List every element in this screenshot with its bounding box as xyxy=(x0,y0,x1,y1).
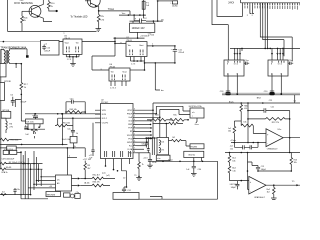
svg-text:5: 5 xyxy=(134,141,135,143)
node pin10 end xyxy=(146,141,148,143)
node feed dots xyxy=(114,41,116,43)
node bottom pins xyxy=(113,169,115,171)
svg-text:7k: 7k xyxy=(142,164,144,166)
wire ladder v8 xyxy=(37,164,39,182)
svg-text:(a2): (a2) xyxy=(106,175,110,177)
wire vcc top bus xyxy=(153,102,300,104)
label right pin numbers xyxy=(134,109,135,154)
wire fb left rail xyxy=(247,103,249,143)
rectifier module box xyxy=(41,41,60,56)
node R17 low xyxy=(21,94,23,96)
header J3 box xyxy=(156,155,170,160)
wire R1a right xyxy=(70,118,73,130)
wire R10 row xyxy=(9,139,22,141)
svg-text:Vout: Vout xyxy=(139,44,144,47)
node plus2 xyxy=(241,180,243,182)
wire row2 xyxy=(80,185,92,187)
svg-text:C30: C30 xyxy=(198,169,201,171)
svg-text:4: 4 xyxy=(134,112,135,114)
resistor R5 small xyxy=(31,129,37,131)
svg-text:C1k: C1k xyxy=(232,170,235,172)
wire rail down b xyxy=(159,117,161,137)
svg-text:R8: R8 xyxy=(87,165,89,167)
wire ladder v4 xyxy=(27,158,29,199)
svg-text:8: 8 xyxy=(134,126,135,128)
capacitor C22 xyxy=(235,181,239,190)
wire pin2 bus xyxy=(137,106,191,113)
pin name marks xyxy=(245,6,298,10)
svg-text:C21: C21 xyxy=(271,107,274,109)
svg-text:+C17 1uF: +C17 1uF xyxy=(83,159,92,161)
svg-text:C10: C10 xyxy=(151,34,154,36)
svg-text:-: - xyxy=(267,142,268,145)
op-amp U1a xyxy=(266,129,283,147)
node R8 foot xyxy=(84,178,86,180)
header box J4 xyxy=(75,194,80,199)
wire osc tap a xyxy=(65,112,67,114)
capacitor C14 xyxy=(172,1,177,4)
wire drops to U8 xyxy=(235,48,242,60)
arrow osc b xyxy=(78,184,80,186)
svg-text:78L05: 78L05 xyxy=(64,38,71,40)
node vcc rail dots xyxy=(247,102,249,104)
wire osc tap b xyxy=(84,112,86,114)
svg-text:Vout: Vout xyxy=(65,42,70,45)
wire ladder v9 xyxy=(40,169,42,186)
svg-text:C13: C13 xyxy=(261,166,264,168)
wire pin5 row xyxy=(137,123,151,125)
pins below U6 xyxy=(111,81,126,86)
svg-text:10k: 10k xyxy=(228,131,231,133)
wire to plus input2 xyxy=(230,180,249,182)
wire ladder v6 xyxy=(33,151,35,190)
resistor Ba2 xyxy=(228,166,231,181)
wire TXout xyxy=(99,10,130,12)
wire Q1 emitter xyxy=(39,16,52,21)
pins U2 left xyxy=(95,110,101,123)
node under U5 xyxy=(69,56,71,58)
relay K1 box xyxy=(3,150,9,154)
node rail dots xyxy=(128,14,130,16)
svg-text:8: 8 xyxy=(227,63,228,65)
wire under U1 xyxy=(131,60,145,62)
svg-text:DVO SENSING: DVO SENSING xyxy=(14,1,33,5)
arrow pin4 xyxy=(151,120,153,122)
wire row1 xyxy=(80,178,92,180)
jumper box small xyxy=(70,136,77,143)
node jog xyxy=(126,186,128,188)
wire left rail xyxy=(7,0,9,31)
svg-text:GPEP: GPEP xyxy=(127,142,133,144)
svg-text:+C7: +C7 xyxy=(89,155,93,157)
label right pin names xyxy=(127,110,133,155)
node ladder joints xyxy=(20,152,22,154)
wire conn long 4 xyxy=(267,3,269,49)
svg-text:FL1A: FL1A xyxy=(128,148,133,151)
wire ladder v5 xyxy=(30,164,32,195)
svg-text:10uFp: 10uFp xyxy=(172,6,179,8)
svg-text:MROKEB: MROKEB xyxy=(47,194,56,196)
svg-text:C20: C20 xyxy=(264,91,267,93)
svg-text:1: 1 xyxy=(134,133,135,135)
capacitor C7 left xyxy=(91,123,94,156)
ground U5 xyxy=(70,64,76,67)
wire conn left feed xyxy=(212,0,228,60)
node top feed xyxy=(157,0,159,2)
relay U10 box xyxy=(157,138,169,155)
wire pin11 row xyxy=(137,145,148,147)
arrow marks U8 pins xyxy=(234,53,241,54)
wire bus 144 xyxy=(0,143,67,145)
wire box bottom drop xyxy=(137,32,139,38)
resistor Ba1 xyxy=(228,153,231,167)
wire Q2 emitter xyxy=(97,6,99,11)
capacitor C20 xyxy=(269,92,274,95)
capacitor C15 xyxy=(148,153,152,165)
wire pin4 row xyxy=(137,120,151,122)
resistor RA3 xyxy=(1,194,6,196)
node fb2 xyxy=(257,170,259,172)
wire pin10 row xyxy=(137,141,148,143)
wire R24 link xyxy=(167,119,170,121)
svg-text:10k: 10k xyxy=(294,162,297,164)
node c row xyxy=(257,142,259,144)
svg-text:-: - xyxy=(250,190,251,193)
resistor R22 xyxy=(248,118,290,121)
wire U1a out xyxy=(283,137,300,139)
wire right column xyxy=(144,61,146,70)
capacitor C13 xyxy=(256,166,260,172)
svg-text:SMP: SMP xyxy=(128,124,133,126)
svg-text:C23: C23 xyxy=(269,100,272,102)
svg-text:Ba2: Ba2 xyxy=(232,168,235,170)
wire U9 pin2 drop xyxy=(271,76,273,92)
ground Q2 xyxy=(96,29,102,32)
capacitor C11 xyxy=(173,46,177,63)
pin marks U6 xyxy=(112,75,125,81)
svg-text:C2aa: C2aa xyxy=(289,60,293,62)
resistor R1a xyxy=(56,124,69,127)
wire TXout drop xyxy=(129,11,131,15)
wire transformer bottom xyxy=(4,62,21,65)
connector pins xyxy=(245,3,300,14)
node R43 taps xyxy=(65,111,67,113)
arrow marks U9 pins xyxy=(271,53,284,54)
ground C30 xyxy=(191,174,197,177)
capacitor C1b xyxy=(71,130,75,136)
wire cap to fuse xyxy=(144,15,146,21)
svg-text:Ja2: Ja2 xyxy=(230,145,233,147)
svg-text:1k2: 1k2 xyxy=(267,192,270,194)
capacitor C4 xyxy=(24,125,28,128)
wire minus rail stub xyxy=(233,143,235,148)
eeprom box MROKEB xyxy=(46,192,61,197)
wire RA1 row xyxy=(6,163,43,165)
wire bottom of Q1 block xyxy=(8,30,97,32)
svg-text:1k2: 1k2 xyxy=(2,192,5,194)
node out2 xyxy=(273,184,275,186)
wire pin12 row xyxy=(137,148,145,150)
svg-text:CM 100000uF: CM 100000uF xyxy=(2,158,15,160)
wire fb2 row xyxy=(258,170,291,172)
resistor R9b xyxy=(241,121,253,127)
wire pin8 row xyxy=(137,134,151,136)
svg-text:78L05: 78L05 xyxy=(109,66,116,68)
capacitor C31 xyxy=(122,189,126,192)
regulator U6 box xyxy=(109,68,130,81)
node fb rail xyxy=(247,110,249,112)
wire conn long 2 xyxy=(263,3,284,56)
wire return rail xyxy=(145,62,175,64)
wire box top stub xyxy=(133,21,153,23)
svg-text:R2L: R2L xyxy=(173,114,176,116)
inductor L1b xyxy=(159,147,160,153)
node mid rail xyxy=(137,37,139,39)
pins below U1 xyxy=(131,57,145,62)
relay K2 box xyxy=(10,150,17,154)
wire U8 pin3 drop xyxy=(236,76,238,94)
pins below DK box xyxy=(28,124,40,129)
svg-text:Trout: Trout xyxy=(168,158,173,161)
svg-text:a bc: a bc xyxy=(157,158,160,160)
svg-text:R6a 4k7: R6a 4k7 xyxy=(93,175,100,177)
mcu U2 box xyxy=(101,104,134,159)
pin ticks U2 bottom xyxy=(105,151,131,157)
node under DK xyxy=(38,126,40,128)
inductor L1a xyxy=(159,140,160,146)
svg-text:1 2 3: 1 2 3 xyxy=(67,59,71,61)
capacitor C4b marks xyxy=(34,132,36,138)
wire triac feed xyxy=(21,102,25,121)
svg-text:KCL2: KCL2 xyxy=(102,118,108,120)
wire under U5 xyxy=(66,56,79,58)
svg-text:78L05: 78L05 xyxy=(126,40,133,42)
resistor R32 xyxy=(171,139,190,146)
svg-text:4k7: 4k7 xyxy=(87,168,90,170)
svg-text:1A 10k: 1A 10k xyxy=(84,181,90,184)
svg-text:+Da1 (C10): +Da1 (C10) xyxy=(4,149,14,151)
wire drop to U6 xyxy=(92,56,115,70)
node bus 144 xyxy=(21,144,23,146)
capacitor C30 xyxy=(192,161,196,173)
node minus2 xyxy=(247,170,249,172)
svg-text:C3a: C3a xyxy=(76,192,79,194)
wire conn long 1 xyxy=(260,3,292,62)
wire secondary top xyxy=(10,49,27,55)
node pin7 end xyxy=(150,131,152,133)
switch box EVQPA22 xyxy=(190,144,204,149)
wire gray AC rail xyxy=(0,41,63,43)
wire osc row xyxy=(67,156,77,158)
wire fb right rail xyxy=(289,111,291,138)
svg-text:T9: T9 xyxy=(134,175,136,177)
resistor R17 xyxy=(20,64,23,102)
svg-text:7: 7 xyxy=(134,148,135,150)
wire vert 62 xyxy=(62,114,64,145)
arrow pin8 xyxy=(151,134,153,136)
resistor R6a xyxy=(92,177,115,180)
wire C6 elbow xyxy=(15,100,21,108)
regulator U5 box xyxy=(63,39,82,54)
box DK C05 xyxy=(26,119,43,124)
svg-text:c: c xyxy=(192,116,193,118)
svg-text:Ba1: Ba1 xyxy=(232,158,235,160)
svg-text:VPU: VPU xyxy=(102,110,107,112)
svg-text:1000uF 10V: 1000uF 10V xyxy=(132,27,145,30)
transistor Q2 xyxy=(87,0,100,7)
capacitor C10 inside xyxy=(42,45,46,51)
capacitor C1aa tab xyxy=(244,62,249,65)
svg-text:FL1: FL1 xyxy=(129,145,132,147)
node U9 pin3 xyxy=(280,93,282,95)
wire rail d xyxy=(153,138,155,155)
wire primary top xyxy=(1,49,4,70)
svg-text:EVQPSG-C25A: EVQPSG-C25A xyxy=(189,105,202,108)
node fb right xyxy=(289,118,291,120)
inductor R6 xyxy=(1,118,7,133)
svg-text:PRUP: PRUP xyxy=(127,114,133,116)
svg-text:140pF: 140pF xyxy=(231,187,237,189)
switch Wal Sw box xyxy=(184,151,204,157)
wire jog to cap xyxy=(124,187,127,189)
wire power bus right xyxy=(230,47,300,49)
wire top feed xyxy=(157,0,173,2)
wire bottom rail xyxy=(139,198,218,200)
wire rail c xyxy=(151,138,153,155)
wire Q2 base xyxy=(85,0,90,2)
wire opamp plus input xyxy=(253,126,266,134)
node AC rail xyxy=(3,41,5,43)
svg-text:8: 8 xyxy=(134,151,135,153)
wire U5 out xyxy=(82,41,115,43)
wire ladder v2 xyxy=(22,155,24,195)
svg-text:C8a: C8a xyxy=(16,189,19,191)
resistor R10b xyxy=(0,138,9,141)
oscillator circle xyxy=(70,194,74,198)
node rails xyxy=(152,109,154,111)
svg-text:C31: C31 xyxy=(127,190,130,192)
resistor Ba3 xyxy=(272,185,275,198)
wire right drop xyxy=(217,161,219,199)
wire drops to U9 xyxy=(272,48,283,60)
wire module to U5 xyxy=(59,41,63,43)
wire Vcc rail top middle xyxy=(119,14,146,16)
capacitor C12 xyxy=(134,15,146,23)
wire J3 drop xyxy=(163,158,202,162)
wire gnd bus double xyxy=(222,92,300,94)
svg-text:OPA2064xT: OPA2064xT xyxy=(254,196,266,199)
svg-text:OscPG: OscPG xyxy=(102,123,109,125)
wire U1b out xyxy=(266,184,300,186)
resistor R2L xyxy=(170,118,189,121)
capacitor C42 xyxy=(66,100,85,104)
capacitor C5 xyxy=(11,97,15,106)
terminal square xyxy=(26,55,29,58)
node bus dots xyxy=(241,48,243,50)
wire pin3 jog xyxy=(122,171,127,187)
svg-text:(a1): (a1) xyxy=(102,172,106,174)
svg-text:27k: 27k xyxy=(161,150,164,152)
svg-text:10k B1: 10k B1 xyxy=(6,167,12,169)
arrow osc a xyxy=(78,177,80,179)
wire mid rail to U2 xyxy=(25,113,101,115)
capacitor C7a xyxy=(33,113,38,119)
wire ladder v7 xyxy=(36,157,38,186)
wire U10 out row xyxy=(169,140,172,142)
node bus2 xyxy=(241,152,243,154)
svg-text:6: 6 xyxy=(134,119,135,121)
svg-text:VSOP: VSOP xyxy=(127,135,133,137)
connector module outline xyxy=(217,0,243,16)
svg-text:GnD: GnD xyxy=(128,121,133,123)
switch box EVQPSG xyxy=(190,108,204,118)
svg-text:C8a: C8a xyxy=(142,144,145,146)
node R30 xyxy=(138,176,140,178)
wire U11 top pin xyxy=(66,148,68,175)
svg-text:10k: 10k xyxy=(232,160,235,162)
node Vin xyxy=(157,20,159,22)
svg-text:10k: 10k xyxy=(243,122,246,124)
svg-text:KCN: KCN xyxy=(102,114,107,116)
node box feed xyxy=(166,123,168,125)
svg-text:24XX: 24XX xyxy=(228,1,234,4)
svg-text:6 5 5: 6 5 5 xyxy=(278,63,282,65)
svg-text:C2: C2 xyxy=(294,100,296,102)
wire U5 gnd drop xyxy=(72,57,74,64)
wire R31 row xyxy=(153,123,169,125)
svg-text:7: 7 xyxy=(134,123,135,125)
wire opamp minus input xyxy=(231,142,266,144)
box capacitor bank 1000uF xyxy=(130,23,155,32)
capacitor C8c xyxy=(13,188,16,195)
node return xyxy=(174,62,176,64)
wire pin13 rail xyxy=(137,152,151,154)
wire a into U6 xyxy=(92,69,109,71)
node out dots xyxy=(152,45,154,47)
op-amp U1b xyxy=(249,176,266,194)
wire bus to vcc rail xyxy=(294,95,296,103)
resistor R30 vertical xyxy=(138,153,141,177)
svg-text:Wal Sw: Wal Sw xyxy=(188,155,195,157)
capacitor C21 xyxy=(248,108,290,112)
svg-text:C1aa: C1aa xyxy=(245,60,249,62)
fuse F1 xyxy=(142,1,145,9)
svg-text:+C8 100uF: +C8 100uF xyxy=(140,36,150,38)
svg-text:C18: C18 xyxy=(220,91,223,93)
capacitor C8b xyxy=(147,138,150,153)
wire ladder to IC rows xyxy=(28,177,55,188)
svg-text:a b: a b xyxy=(192,112,195,114)
wire mid rail xyxy=(113,37,144,39)
node pin5 end xyxy=(150,124,152,126)
resistor Ja1 xyxy=(233,121,236,143)
resistor RA2 xyxy=(0,168,6,171)
wire conn long 3 xyxy=(264,3,266,49)
svg-text:R24: R24 xyxy=(155,114,158,116)
wire pin9 row xyxy=(137,138,151,140)
wire under DK xyxy=(24,128,45,130)
svg-text:1 2 3: 1 2 3 xyxy=(131,63,135,65)
pin ticks U8 xyxy=(228,61,240,76)
svg-text:TXout: TXout xyxy=(108,8,114,11)
wire U8 pin2 drop xyxy=(227,76,229,92)
resistor R6b xyxy=(92,184,110,187)
svg-text:R13 10k: R13 10k xyxy=(63,122,70,124)
wire ladder v1 xyxy=(20,151,22,199)
wire bottom rail left xyxy=(0,194,31,196)
arrow pin9 xyxy=(151,138,153,140)
node box bus xyxy=(73,147,75,149)
